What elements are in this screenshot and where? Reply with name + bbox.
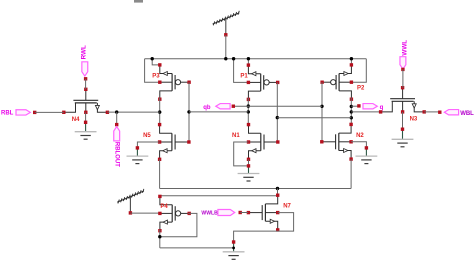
svg-text:P3: P3 bbox=[152, 74, 160, 80]
svg-text:P1: P1 bbox=[240, 74, 248, 80]
transistor N4 bbox=[62, 88, 109, 123]
ground (N2 bulk) bbox=[356, 146, 378, 163]
wire qb line to P2/N2 gates bbox=[233, 105, 322, 107]
ground (N1 source) bbox=[238, 164, 260, 181]
ground (N3) bbox=[392, 128, 414, 147]
wire common line N5-N2 sources bbox=[160, 188, 352, 190]
transistor P2 bbox=[320, 63, 365, 101]
wire stub to N7 drain bbox=[277, 189, 279, 196]
wire RBL to N4 bbox=[35, 111, 64, 113]
wire P4 source down bbox=[159, 230, 161, 248]
wire vdd stem to rail bbox=[225, 35, 227, 59]
node q pin junction bbox=[350, 105, 353, 108]
wire N2 bulk to ground bbox=[351, 142, 366, 148]
wire P1 gate to N1 gate bbox=[276, 82, 278, 142]
transistor N1 bbox=[232, 123, 280, 161]
vdd rail bbox=[145, 58, 367, 60]
svg-text:N4: N4 bbox=[72, 117, 80, 123]
wire N1 source down bbox=[248, 159, 250, 166]
transistor P3 bbox=[152, 63, 191, 101]
svg-text:RWL: RWL bbox=[81, 45, 88, 59]
svg-text:P4: P4 bbox=[160, 204, 168, 210]
wire N2 source down bbox=[350, 159, 352, 188]
ground (N4) bbox=[75, 121, 97, 140]
svg-text:WWLB: WWLB bbox=[201, 211, 218, 217]
wire N1 bulk loop to source bbox=[234, 142, 249, 166]
pin RBLOUT bbox=[113, 112, 119, 167]
svg-text:P2: P2 bbox=[357, 85, 365, 91]
node storage junction with read line bbox=[158, 110, 161, 113]
wire bottom rail to ground bbox=[160, 247, 234, 249]
wire P2 drain down q column bbox=[350, 98, 352, 124]
wire inverter1 input to qb node bbox=[189, 111, 248, 113]
transistor P4 bbox=[158, 195, 191, 233]
svg-text:N3: N3 bbox=[410, 117, 418, 123]
node N7 drain junction bbox=[276, 187, 279, 190]
wire q feedback to P1/N1 gates bbox=[277, 117, 351, 119]
svg-text:RBLOUT: RBLOUT bbox=[113, 142, 119, 167]
transistor P1 bbox=[240, 63, 279, 101]
wire vdd to P4 bulk bbox=[130, 212, 160, 214]
pin WWLB bbox=[201, 210, 242, 217]
wire N3 bulk to ground bbox=[402, 112, 404, 129]
ground (main bottom) bbox=[223, 240, 245, 259]
node RBLOUT junction bbox=[115, 110, 118, 113]
vdd supply symbol (bottom) bbox=[117, 189, 144, 215]
wire N4 bulk to ground bbox=[85, 112, 87, 122]
svg-text:WBL: WBL bbox=[460, 111, 474, 117]
wire P4 drain to N7 drain bbox=[160, 195, 278, 197]
ground (N5 bulk) bbox=[127, 146, 149, 163]
node inverter1 input junction bbox=[187, 110, 190, 113]
wire N3 to WBL bbox=[424, 111, 440, 113]
pin RWL (top left) bbox=[81, 45, 88, 89]
transistor N3 bbox=[379, 86, 426, 123]
node q to N3 junction bbox=[350, 110, 353, 113]
wire rail to P3 source bbox=[152, 59, 160, 65]
wire rail to P3 bulk bbox=[145, 59, 160, 82]
wire rail to P2 source bbox=[350, 59, 352, 65]
node inverter3 input junction bbox=[320, 105, 323, 108]
wire P3 drain to N5 drain (storage node) bbox=[159, 98, 161, 126]
pin RBL (left) bbox=[1, 110, 36, 117]
wire N5 source down to common line bbox=[159, 159, 161, 188]
node inverter2 input junction bbox=[276, 116, 279, 119]
top edge stray mark bbox=[134, 0, 143, 3]
pin WBL (right) bbox=[438, 110, 474, 117]
wire P3 gate to N5 gate bbox=[188, 82, 190, 142]
node P4 gate-source junction bbox=[158, 235, 161, 238]
wire rail to P1 source bbox=[247, 59, 249, 65]
wire N7 bulk loop bbox=[278, 213, 294, 232]
wire rail to P2 bulk bbox=[351, 59, 366, 82]
node qb pin junction bbox=[247, 104, 250, 107]
transistor N7 bbox=[247, 194, 292, 232]
wire rail to P1 bulk bbox=[234, 59, 249, 83]
svg-text:RBL: RBL bbox=[1, 111, 14, 117]
transistor N5 bbox=[143, 123, 190, 161]
svg-text:N7: N7 bbox=[283, 203, 291, 209]
wire N4 source to storage node bbox=[107, 111, 159, 113]
svg-text:N1: N1 bbox=[232, 133, 240, 139]
svg-text:WWL: WWL bbox=[401, 40, 408, 56]
svg-text:N2: N2 bbox=[356, 133, 364, 139]
wire N5 bulk to ground bbox=[137, 142, 159, 148]
wire WWLB to N7 gate bbox=[240, 212, 248, 214]
wire P4 gate loop bbox=[160, 213, 197, 236]
transistor N2 bbox=[320, 123, 364, 161]
svg-text:q: q bbox=[380, 105, 384, 111]
wire P1 drain down qb column bbox=[247, 98, 249, 124]
svg-text:qb: qb bbox=[203, 105, 211, 111]
wire q node to N3 bbox=[351, 111, 380, 113]
pin qb bbox=[203, 104, 235, 111]
node qb cross-couple junction bbox=[247, 110, 250, 113]
svg-text:N5: N5 bbox=[143, 133, 151, 139]
pin WWL (top right) bbox=[400, 40, 408, 88]
node q feedback junction bbox=[350, 116, 353, 119]
pin q bbox=[351, 104, 383, 111]
wire P2 gate to N2 gate bbox=[321, 82, 323, 142]
vdd supply symbol (top) bbox=[213, 11, 240, 37]
wire N7 source to ground bbox=[234, 231, 278, 242]
